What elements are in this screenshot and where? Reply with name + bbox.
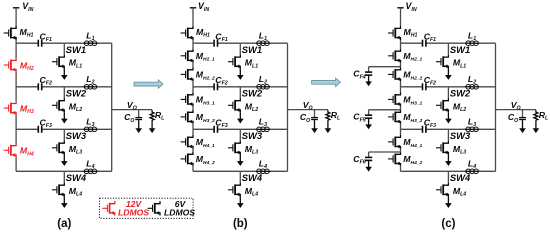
ground below ML4 (c)	[445, 197, 452, 208]
svg-text:SW2: SW2	[66, 87, 87, 98]
inductor L1 (c)	[465, 41, 479, 46]
inductor L1 (a)	[83, 41, 97, 46]
svg-text:SW4: SW4	[66, 172, 87, 183]
wire rail row2 to MH3 (a)	[15, 87, 17, 101]
svg-text:CF5: CF5	[353, 112, 365, 124]
wire rail row3 to MH4_1 (c)	[400, 129, 402, 135]
transistor MH4 (a)	[4, 143, 16, 157]
ground below RL (c)	[533, 120, 540, 133]
wire VIN to MH1 (a)	[15, 8, 17, 26]
wire MH3_2 to row3 (b)	[192, 124, 194, 129]
svg-text:L1: L1	[86, 30, 94, 42]
ground below ML1 (a)	[61, 69, 68, 80]
transistor ML4 (b)	[228, 183, 240, 197]
ground below ML1 (b)	[237, 69, 244, 80]
svg-text:MH3: MH3	[20, 104, 34, 116]
wire rail row3 to MH4_1 (b)	[192, 129, 194, 135]
wire row1 (b)	[193, 42, 214, 44]
transistor ML2 (b)	[228, 98, 240, 112]
ground below CF5 (c)	[365, 119, 372, 130]
transistor MH2_2 (c)	[388, 67, 400, 81]
svg-text:L1: L1	[468, 30, 476, 42]
transistor MH1 (a)	[4, 26, 16, 40]
svg-text:VO: VO	[303, 100, 313, 112]
inductor L4 (a)	[83, 169, 97, 174]
svg-text:L3: L3	[468, 116, 476, 128]
wire rail row1 to MH2_1 (c)	[400, 43, 402, 49]
resistor RL (c)	[534, 110, 538, 120]
wire between MH3_1 and MH3_2 (b)	[192, 106, 194, 110]
svg-text:MH3_2: MH3_2	[196, 112, 215, 124]
transistor MH4_1 (c)	[388, 135, 400, 149]
transistor MH2_2 (b)	[181, 67, 193, 81]
svg-text:CO: CO	[300, 112, 310, 124]
wire SW3 drop (b)	[239, 129, 241, 141]
transistor ML4 (a)	[52, 183, 64, 197]
svg-text:L3: L3	[259, 116, 267, 128]
inductor L4 (b)	[256, 169, 270, 174]
inductor L4 (c)	[465, 169, 479, 174]
svg-text:ML3: ML3	[245, 144, 258, 156]
svg-text:CF4: CF4	[353, 69, 365, 81]
transistor ML4 (c)	[436, 183, 448, 197]
svg-text:CF3: CF3	[215, 118, 227, 130]
transistor ML2 (a)	[52, 98, 64, 112]
svg-text:MH1: MH1	[20, 27, 34, 39]
transistor ML1 (b)	[228, 55, 240, 69]
svg-text:(a): (a)	[57, 218, 71, 230]
svg-text:MH4_2: MH4_2	[403, 154, 422, 166]
ground below ML3 (c)	[445, 155, 452, 166]
ground below ML4 (b)	[237, 197, 244, 208]
ground below CF4 (c)	[365, 76, 372, 87]
svg-text:ML3: ML3	[69, 144, 82, 156]
wire MH2_2 to row2 (c)	[400, 81, 402, 86]
svg-text:MH2_1: MH2_1	[403, 51, 422, 63]
node VO wire (c)	[496, 109, 536, 111]
arrow b to c	[312, 78, 341, 86]
ground below RL (b)	[325, 120, 332, 133]
svg-text:MH3_1: MH3_1	[403, 95, 422, 107]
svg-text:ML2: ML2	[245, 101, 258, 113]
svg-text:ML2: ML2	[69, 101, 82, 113]
svg-text:L3: L3	[86, 116, 94, 128]
ground below ML3 (b)	[237, 155, 244, 166]
wire between MH4_1 and MH4_2 (b)	[192, 149, 194, 152]
ground below CO (c)	[519, 120, 526, 133]
capacitor CF2 (a)	[38, 83, 41, 90]
ground below ML4 (a)	[61, 197, 68, 208]
svg-text:SW3: SW3	[66, 130, 87, 141]
svg-text:CF1: CF1	[424, 31, 436, 43]
svg-text:L2: L2	[86, 74, 94, 86]
svg-text:ML3: ML3	[453, 144, 466, 156]
svg-text:CF1: CF1	[40, 31, 52, 43]
svg-text:CF3: CF3	[424, 118, 436, 130]
node VO wire (b)	[288, 109, 328, 111]
inductor L2 (b)	[256, 85, 270, 90]
svg-text:CO: CO	[124, 112, 134, 124]
node VO wire (a)	[112, 109, 152, 111]
wire SW2 drop (c)	[447, 87, 449, 99]
node VIN terminal (a)	[13, 7, 19, 9]
transistor ML3 (b)	[228, 141, 240, 155]
svg-text:CF3: CF3	[40, 118, 52, 130]
arrow a to b	[134, 80, 163, 88]
capacitor CF1 (b)	[214, 40, 217, 47]
capacitor CO (b)	[314, 110, 316, 117]
svg-text:VIN: VIN	[198, 1, 209, 13]
wire row1 (a)	[16, 42, 38, 44]
svg-text:L2: L2	[259, 74, 267, 86]
wire to CF5 (c)	[369, 109, 401, 111]
inductor L2 (a)	[83, 85, 97, 90]
wire MH2_2 to row2 (b)	[192, 81, 194, 86]
wire SW1 drop (a)	[63, 43, 65, 55]
wire MH4 to row4 (a)	[15, 157, 17, 171]
svg-text:ML1: ML1	[453, 58, 466, 70]
capacitor CF2 (b)	[214, 83, 217, 90]
svg-text:ML1: ML1	[69, 58, 82, 70]
wire between MH3_1 and MH3_2 (c)	[400, 106, 402, 110]
svg-text:L2: L2	[468, 74, 476, 86]
svg-text:CF6: CF6	[353, 154, 365, 166]
transistor ML3 (a)	[52, 141, 64, 155]
wire row3 (b)	[193, 128, 214, 130]
wire rail row2 to MH3_1 (b)	[192, 87, 194, 93]
svg-text:VO: VO	[511, 100, 521, 112]
svg-text:(c): (c)	[441, 218, 455, 230]
svg-text:MH1: MH1	[404, 27, 418, 39]
wire row4 (a)	[16, 170, 112, 172]
node VIN terminal (c)	[397, 7, 403, 9]
ground below ML3 (a)	[61, 155, 68, 166]
inductor L1 (b)	[256, 41, 270, 46]
wire MH1 to row1 (c)	[400, 40, 402, 43]
wire row4 (c)	[401, 170, 496, 172]
svg-text:MH2_2: MH2_2	[403, 70, 422, 82]
svg-text:SW1: SW1	[66, 44, 86, 55]
wire MH1 to row1 (a)	[15, 40, 17, 43]
legend box	[100, 198, 194, 218]
wire row4 (b)	[193, 170, 288, 172]
transistor MH3_1 (c)	[388, 92, 400, 106]
transistor MH3_2 (c)	[388, 110, 400, 124]
ground below ML2 (a)	[61, 112, 68, 123]
svg-text:MH4: MH4	[20, 146, 34, 158]
svg-text:MH3_1: MH3_1	[196, 95, 215, 107]
svg-text:VO: VO	[127, 100, 137, 112]
resistor RL (a)	[150, 110, 154, 120]
svg-text:MH2: MH2	[20, 60, 34, 72]
svg-text:ML4: ML4	[69, 186, 82, 198]
capacitor CF1 (a)	[38, 40, 41, 47]
svg-text:CF2: CF2	[424, 75, 436, 87]
transistor ML2 (c)	[436, 98, 448, 112]
ground below CO (b)	[311, 120, 318, 133]
transistor MH3_2 (b)	[181, 110, 193, 124]
inductor L3 (a)	[83, 127, 97, 132]
capacitor CF6 (c)	[365, 157, 372, 160]
ground below ML1 (c)	[445, 69, 452, 80]
svg-text:MH4_1: MH4_1	[403, 137, 422, 149]
svg-text:CO: CO	[508, 112, 518, 124]
wire rail row2 to MH3_1 (c)	[400, 87, 402, 93]
svg-text:MH4_1: MH4_1	[196, 137, 215, 149]
transistor MH2_1 (c)	[388, 49, 400, 63]
svg-text:L4: L4	[259, 158, 267, 170]
wire row2 (c)	[401, 86, 423, 88]
wire SW3 drop (c)	[447, 129, 449, 141]
wire MH2 to row2 (a)	[15, 72, 17, 87]
svg-text:MH2_1: MH2_1	[196, 51, 215, 63]
transistor MH4_2 (b)	[181, 152, 193, 166]
wire right rail (c)	[495, 43, 497, 171]
svg-text:VIN: VIN	[406, 1, 417, 13]
wire SW4 drop (b)	[239, 171, 241, 183]
transistor MH3 (a)	[4, 101, 16, 115]
inductor L2 (c)	[465, 85, 479, 90]
ground below ML2 (b)	[237, 112, 244, 123]
wire rail row1 to MH2 (a)	[15, 43, 17, 58]
wire to CF6 (c)	[369, 151, 401, 153]
capacitor CO (a)	[138, 110, 140, 117]
ground below ML2 (c)	[445, 112, 452, 123]
capacitor CF3 (a)	[38, 126, 41, 133]
wire row1 (c)	[401, 42, 423, 44]
svg-text:RL: RL	[331, 110, 340, 122]
svg-text:CF2: CF2	[215, 75, 227, 87]
ground below RL (a)	[149, 120, 156, 133]
transistor MH1 (b)	[181, 26, 193, 40]
transistor MH2_1 (b)	[181, 49, 193, 63]
wire SW2 drop (b)	[239, 87, 241, 99]
capacitor CF1 (c)	[423, 40, 426, 47]
svg-text:VIN: VIN	[22, 1, 33, 13]
transistor MH1 (c)	[388, 26, 400, 40]
wire SW3 drop (a)	[63, 129, 65, 141]
inductor L3 (b)	[256, 127, 270, 132]
capacitor CO (c)	[522, 110, 524, 117]
legend 6V LDMOS symbol	[148, 201, 160, 215]
transistor MH2 (a)	[4, 58, 16, 72]
wire VIN to MH1 (b)	[192, 8, 194, 26]
svg-text:LDMOS: LDMOS	[118, 207, 149, 217]
transistor ML1 (a)	[52, 55, 64, 69]
wire right rail (a)	[111, 43, 113, 171]
legend 12V LDMOS symbol	[102, 201, 114, 215]
wire MH3_2 to row3 (c)	[400, 124, 402, 129]
ground below CO (a)	[135, 120, 142, 133]
transistor MH4_2 (c)	[388, 152, 400, 166]
wire row3 (a)	[16, 128, 38, 130]
wire between MH4_1 and MH4_2 (c)	[400, 149, 402, 152]
capacitor CF3 (c)	[423, 126, 426, 133]
svg-text:LDMOS: LDMOS	[164, 207, 195, 217]
wire row3 (c)	[401, 128, 423, 130]
ground below CF6 (c)	[365, 161, 372, 172]
wire rail row1 to MH2_1 (b)	[192, 43, 194, 49]
svg-text:MH1: MH1	[196, 27, 210, 39]
wire MH3 to row3 (a)	[15, 115, 17, 129]
transistor ML1 (c)	[436, 55, 448, 69]
wire SW4 drop (a)	[63, 171, 65, 183]
wire row2 (a)	[16, 86, 38, 88]
resistor RL (b)	[326, 110, 330, 120]
wire MH4_2 to row4 (c)	[400, 166, 402, 171]
svg-text:ML4: ML4	[453, 186, 466, 198]
svg-text:L4: L4	[468, 158, 476, 170]
wire SW1 drop (c)	[447, 43, 449, 55]
wire SW1 drop (b)	[239, 43, 241, 55]
svg-text:CF1: CF1	[215, 31, 227, 43]
capacitor CF5 (c)	[365, 115, 372, 118]
wire VIN to MH1 (c)	[400, 8, 402, 26]
svg-text:L4: L4	[86, 158, 94, 170]
wire row2 (b)	[193, 86, 214, 88]
transistor MH3_1 (b)	[181, 92, 193, 106]
svg-text:MH3_2: MH3_2	[403, 112, 422, 124]
svg-text:L1: L1	[259, 30, 267, 42]
transistor ML3 (c)	[436, 141, 448, 155]
svg-text:ML1: ML1	[245, 58, 258, 70]
transistor MH4_1 (b)	[181, 135, 193, 149]
svg-text:CF2: CF2	[40, 75, 52, 87]
capacitor CF3 (b)	[214, 126, 217, 133]
wire rail row3 to MH4 (a)	[15, 129, 17, 143]
wire between MH2_1 and MH2_2 (b)	[192, 63, 194, 68]
wire between MH2_1 and MH2_2 (c)	[400, 63, 402, 68]
svg-text:ML4: ML4	[245, 186, 258, 198]
svg-text:RL: RL	[155, 110, 164, 122]
capacitor CF2 (c)	[423, 83, 426, 90]
wire right rail (b)	[287, 43, 289, 171]
wire SW4 drop (c)	[447, 171, 449, 183]
wire MH1 to row1 (b)	[192, 40, 194, 43]
wire SW2 drop (a)	[63, 87, 65, 99]
wire MH4_2 to row4 (b)	[192, 166, 194, 171]
wire to CF4 (c)	[369, 66, 401, 68]
svg-text:(b): (b)	[233, 218, 248, 230]
svg-text:MH4_2: MH4_2	[196, 154, 215, 166]
capacitor CF4 (c)	[365, 72, 372, 75]
svg-text:ML2: ML2	[453, 101, 466, 113]
inductor L3 (c)	[465, 127, 479, 132]
svg-text:RL: RL	[539, 110, 548, 122]
svg-text:MH2_2: MH2_2	[196, 70, 215, 82]
node VIN terminal (b)	[190, 7, 196, 9]
